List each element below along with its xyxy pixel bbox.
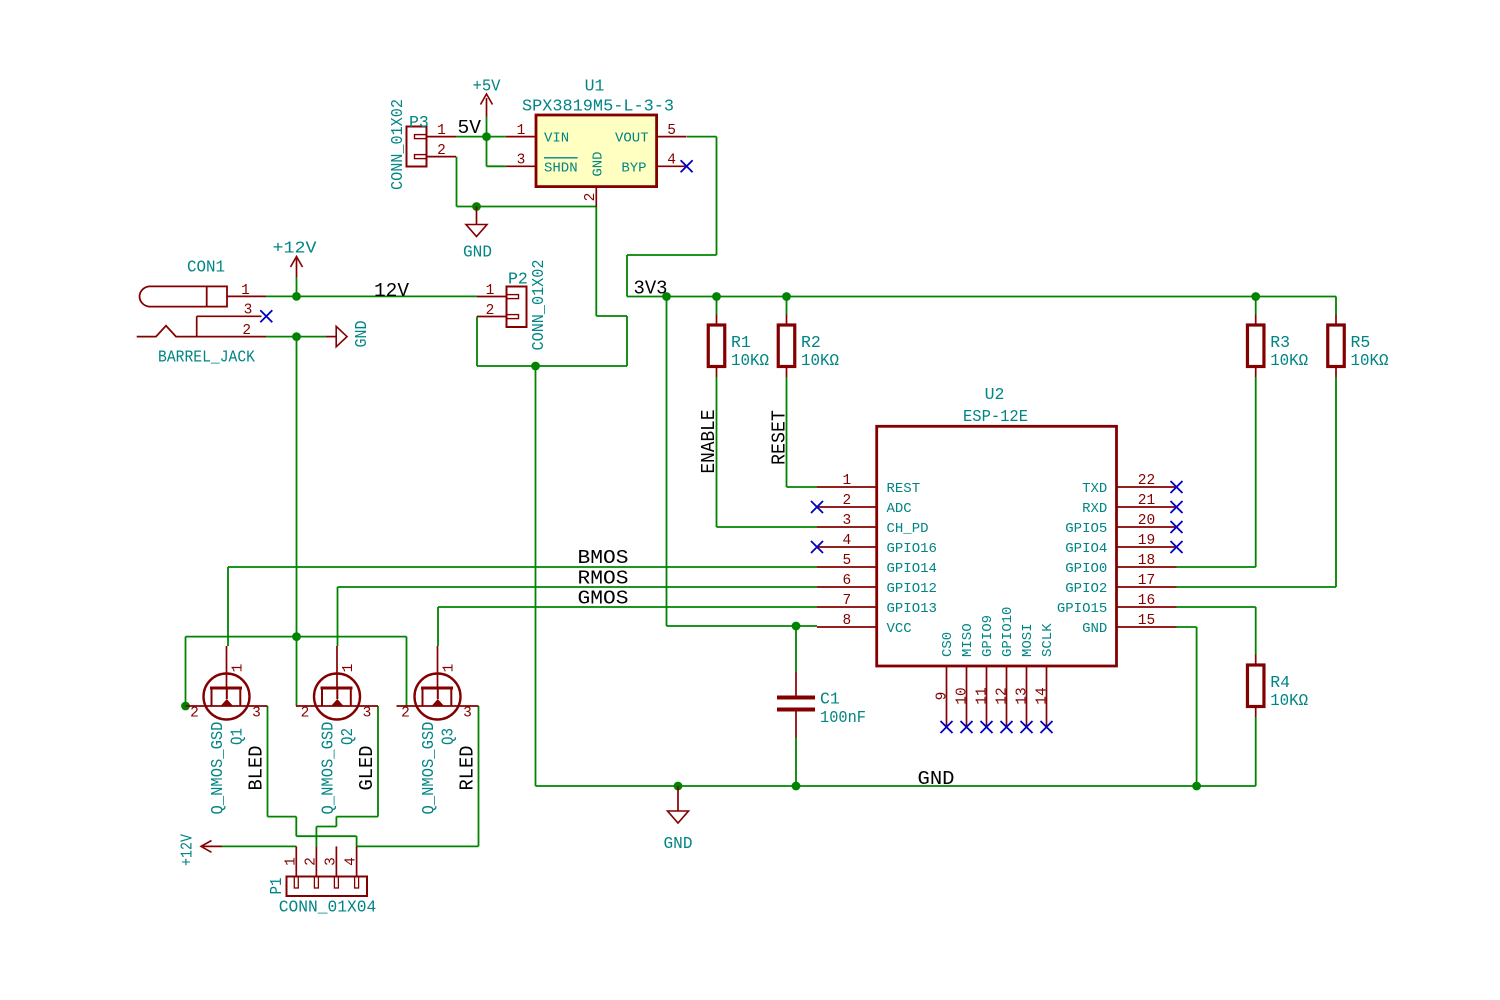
svg-text:7: 7 [842, 593, 851, 609]
svg-text:Q1: Q1 [228, 728, 247, 745]
svg-text:1: 1 [341, 664, 357, 673]
svg-text:3: 3 [517, 153, 526, 169]
svg-text:GLED: GLED [356, 746, 378, 791]
svg-text:3V3: 3V3 [634, 278, 668, 300]
svg-text:P1: P1 [267, 877, 286, 894]
svg-text:CONN_01X02: CONN_01X02 [388, 99, 407, 190]
svg-text:12: 12 [994, 687, 1010, 704]
svg-text:2: 2 [401, 706, 410, 722]
svg-text:12V: 12V [374, 280, 410, 302]
svg-text:GMOS: GMOS [578, 588, 629, 610]
svg-text:Q_NMOS_GSD: Q_NMOS_GSD [208, 721, 227, 814]
svg-text:2: 2 [301, 706, 310, 722]
svg-text:1: 1 [437, 123, 446, 139]
svg-text:U1: U1 [585, 77, 605, 96]
svg-text:4: 4 [842, 533, 851, 549]
svg-text:GPIO14: GPIO14 [887, 561, 937, 577]
svg-text:GND: GND [664, 834, 693, 853]
svg-text:14: 14 [1034, 687, 1050, 704]
svg-text:P2: P2 [508, 270, 528, 289]
svg-text:CONN_01X04: CONN_01X04 [279, 898, 377, 917]
svg-text:3: 3 [244, 303, 253, 319]
svg-text:BARREL_JACK: BARREL_JACK [158, 347, 255, 366]
svg-text:SCLK: SCLK [1040, 623, 1056, 657]
svg-text:CON1: CON1 [187, 257, 225, 276]
svg-text:1: 1 [241, 283, 250, 299]
svg-text:13: 13 [1014, 687, 1030, 704]
svg-text:4: 4 [344, 857, 360, 866]
svg-text:10: 10 [954, 687, 970, 704]
svg-text:2: 2 [842, 493, 851, 509]
svg-text:BYP: BYP [621, 160, 646, 176]
svg-text:Q2: Q2 [338, 728, 357, 745]
svg-text:3: 3 [323, 857, 339, 866]
svg-text:10KΩ: 10KΩ [801, 351, 839, 370]
svg-text:RESET: RESET [769, 410, 791, 465]
svg-text:21: 21 [1138, 493, 1155, 509]
svg-text:R2: R2 [801, 333, 821, 352]
svg-text:2: 2 [486, 303, 495, 319]
svg-text:15: 15 [1138, 613, 1155, 629]
svg-text:CS0: CS0 [940, 632, 956, 657]
svg-text:GND: GND [1082, 621, 1107, 637]
svg-text:8: 8 [842, 613, 851, 629]
svg-text:2: 2 [190, 706, 199, 722]
svg-text:GPIO16: GPIO16 [887, 541, 937, 557]
svg-text:GPIO12: GPIO12 [887, 581, 937, 597]
svg-text:MOSI: MOSI [1020, 623, 1036, 657]
svg-text:ENABLE: ENABLE [698, 410, 720, 474]
svg-text:18: 18 [1138, 553, 1155, 569]
svg-text:17: 17 [1138, 573, 1155, 589]
svg-text:GPIO5: GPIO5 [1065, 521, 1107, 537]
svg-text:SPX3819M5-L-3-3: SPX3819M5-L-3-3 [522, 97, 674, 116]
svg-text:BMOS: BMOS [578, 547, 629, 569]
svg-text:1: 1 [842, 473, 851, 489]
svg-text:VIN: VIN [544, 131, 569, 147]
svg-text:16: 16 [1138, 593, 1155, 609]
svg-text:Q_NMOS_GSD: Q_NMOS_GSD [419, 721, 438, 814]
svg-text:1: 1 [517, 123, 526, 139]
svg-text:C1: C1 [820, 690, 840, 709]
svg-text:2: 2 [242, 323, 251, 339]
svg-text:100nF: 100nF [820, 708, 866, 727]
svg-text:1: 1 [486, 283, 495, 299]
svg-text:CH_PD: CH_PD [887, 521, 929, 537]
svg-text:1: 1 [283, 857, 299, 866]
svg-text:RXD: RXD [1082, 501, 1107, 517]
svg-text:1: 1 [231, 664, 247, 673]
svg-text:R3: R3 [1270, 333, 1290, 352]
svg-text:4: 4 [667, 153, 676, 169]
svg-text:GND: GND [463, 243, 492, 262]
svg-text:2: 2 [303, 857, 319, 866]
svg-text:GND: GND [352, 320, 371, 347]
svg-text:VOUT: VOUT [615, 131, 649, 147]
svg-text:TXD: TXD [1082, 481, 1107, 497]
svg-text:VCC: VCC [887, 621, 912, 637]
svg-text:Q3: Q3 [439, 728, 458, 745]
svg-text:R4: R4 [1270, 673, 1290, 692]
svg-text:11: 11 [974, 687, 990, 704]
svg-text:CONN_01X02: CONN_01X02 [529, 260, 548, 351]
svg-text:5: 5 [667, 123, 676, 139]
svg-text:1: 1 [442, 664, 458, 673]
svg-text:R5: R5 [1351, 333, 1371, 352]
svg-text:19: 19 [1138, 533, 1155, 549]
svg-text:10KΩ: 10KΩ [731, 351, 769, 370]
svg-text:+5V: +5V [473, 77, 501, 96]
svg-text:Q_NMOS_GSD: Q_NMOS_GSD [318, 721, 337, 814]
svg-text:10KΩ: 10KΩ [1351, 351, 1389, 370]
svg-text:GPIO0: GPIO0 [1065, 561, 1107, 577]
svg-text:+12V: +12V [178, 834, 197, 866]
svg-text:GPIO13: GPIO13 [887, 601, 937, 617]
svg-text:GPIO2: GPIO2 [1065, 581, 1107, 597]
svg-text:2: 2 [583, 193, 599, 202]
svg-text:P3: P3 [409, 113, 429, 132]
svg-text:3: 3 [252, 706, 261, 722]
svg-text:GND: GND [918, 768, 955, 790]
svg-text:GPIO4: GPIO4 [1065, 541, 1107, 557]
svg-text:GPIO9: GPIO9 [980, 615, 996, 657]
svg-text:GND: GND [590, 151, 606, 176]
svg-text:SHDN: SHDN [544, 160, 578, 176]
svg-text:+12V: +12V [273, 239, 317, 258]
svg-text:5V: 5V [458, 117, 482, 139]
svg-text:GPIO10: GPIO10 [1000, 607, 1016, 657]
svg-text:MISO: MISO [960, 623, 976, 657]
svg-text:BLED: BLED [246, 746, 268, 791]
svg-text:U2: U2 [985, 385, 1005, 404]
svg-text:22: 22 [1138, 473, 1155, 489]
svg-text:ADC: ADC [887, 501, 912, 517]
svg-text:GPIO15: GPIO15 [1057, 601, 1107, 617]
svg-text:RMOS: RMOS [578, 568, 629, 590]
svg-text:10KΩ: 10KΩ [1270, 351, 1308, 370]
svg-text:RLED: RLED [457, 746, 479, 791]
svg-text:5: 5 [842, 553, 851, 569]
svg-text:3: 3 [842, 513, 851, 529]
svg-text:6: 6 [842, 573, 851, 589]
svg-text:3: 3 [363, 706, 372, 722]
svg-text:10KΩ: 10KΩ [1270, 691, 1308, 710]
svg-text:9: 9 [934, 692, 950, 701]
svg-text:2: 2 [437, 143, 446, 159]
svg-text:R1: R1 [731, 333, 751, 352]
svg-text:20: 20 [1138, 513, 1155, 529]
svg-text:3: 3 [463, 706, 472, 722]
svg-text:REST: REST [887, 481, 921, 497]
svg-text:ESP-12E: ESP-12E [963, 407, 1028, 426]
